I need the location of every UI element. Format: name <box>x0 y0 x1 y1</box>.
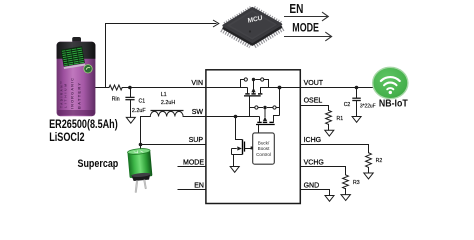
M1 body arrow <box>251 88 255 93</box>
svg-text:R3: R3 <box>353 180 360 186</box>
transistor M2 (buck-boost FET) <box>250 88 280 133</box>
svg-text:2.2uF: 2.2uF <box>132 108 146 114</box>
transistor M1 (high-side pass FET) <box>241 78 301 96</box>
svg-text:BATTERY: BATTERY <box>77 83 82 109</box>
resistor Rin <box>109 85 122 90</box>
svg-text:LiSOCl2: LiSOCl2 <box>49 132 85 144</box>
wire R3 to ground <box>345 189 347 195</box>
svg-text:R1: R1 <box>337 116 344 122</box>
svg-text:Rin: Rin <box>112 97 120 103</box>
svg-text:R2: R2 <box>376 158 383 164</box>
svg-text:3*22uF: 3*22uF <box>360 103 376 109</box>
transistor M3 (low-side NMOS) <box>232 117 253 167</box>
svg-text:ER26500(8.5Ah): ER26500(8.5Ah) <box>49 119 118 131</box>
svg-text:Buck/: Buck/ <box>258 141 270 146</box>
ground (C2) <box>352 117 361 123</box>
wire VCHG to R3 <box>300 167 345 175</box>
node M1 body <box>252 78 255 81</box>
arrowhead into MCU <box>213 20 219 27</box>
ground (R3) <box>341 195 350 201</box>
ground (M3 source) <box>230 167 239 173</box>
M3 body arrow <box>237 146 242 150</box>
wire C1 to ground <box>130 100 132 117</box>
M2 body arrow <box>263 117 267 122</box>
node VOUT/C2 junction <box>355 86 359 90</box>
wire battery to Rin <box>96 87 110 89</box>
wire VIN node to MCU <box>106 24 217 88</box>
wire VOUT to NB-IoT <box>300 87 373 89</box>
wire Rin to VIN pin <box>122 87 206 89</box>
svg-text:INORGANIC: INORGANIC <box>70 78 75 109</box>
svg-text:Supercap: Supercap <box>78 158 119 170</box>
ground (R1) <box>325 130 334 136</box>
ground (R2) <box>364 173 373 179</box>
wire M1 gate to SW line <box>249 96 251 117</box>
svg-text:Boost: Boost <box>258 146 270 151</box>
resistor R1 <box>326 110 332 124</box>
internal SW line <box>206 116 260 118</box>
svg-text:EN: EN <box>289 3 303 16</box>
ground (C1) <box>126 117 135 123</box>
svg-text:EN: EN <box>194 183 204 190</box>
wire C2 down <box>356 88 358 98</box>
node SUP junction <box>139 143 143 147</box>
wire SW to L1 <box>185 116 207 118</box>
supercap C3 <box>127 148 153 193</box>
capacitor C1 2.2uF <box>125 97 134 99</box>
svg-text:OSEL: OSEL <box>304 98 323 105</box>
svg-text:LITHIUM: LITHIUM <box>64 84 68 108</box>
svg-text:VCHG: VCHG <box>304 160 324 167</box>
battery BT1 ER26500 <box>57 37 96 116</box>
MCU U2 <box>222 7 283 45</box>
node M2 body <box>263 106 266 109</box>
node VIN junction <box>128 86 132 90</box>
ground (GND pin) <box>325 196 334 202</box>
svg-text:SW: SW <box>192 109 204 116</box>
svg-text:VOUT: VOUT <box>304 80 324 87</box>
svg-text:SUP: SUP <box>189 137 204 144</box>
svg-text:C1: C1 <box>139 98 146 104</box>
wire SUP node to supercap <box>140 145 142 151</box>
wire EN pin <box>178 189 206 191</box>
svg-text:GND: GND <box>304 183 320 190</box>
capacitor C2 3*22uF <box>352 98 361 100</box>
svg-text:L1: L1 <box>161 92 167 98</box>
internal VIN line <box>206 87 248 89</box>
node SW junction <box>234 115 238 119</box>
NB-IoT module icon <box>373 67 408 98</box>
svg-text:VIN: VIN <box>191 80 203 87</box>
wire R1 to ground <box>328 124 330 130</box>
resistor R3 <box>343 175 349 189</box>
wire OSEL to R1 <box>300 106 328 111</box>
buck/boost control block <box>253 133 275 164</box>
svg-text:ICHG: ICHG <box>304 137 322 144</box>
inductor L1 2.2uH <box>149 111 185 117</box>
wire ICHG to R2 <box>300 145 368 153</box>
EN arrow <box>284 12 328 21</box>
wire MODE pin <box>178 166 206 168</box>
IC U1 box <box>206 70 300 204</box>
wire L1 left to SUP node <box>141 117 149 145</box>
svg-text:2.2uH: 2.2uH <box>161 100 175 106</box>
svg-text:MODE: MODE <box>183 160 204 167</box>
node VOUT internal <box>278 86 282 90</box>
wire C2 to ground <box>356 101 358 116</box>
svg-text:C2: C2 <box>344 102 351 108</box>
svg-text:NB-IoT: NB-IoT <box>379 98 408 109</box>
wire R2 to ground <box>368 168 370 173</box>
MODE arrow <box>284 32 332 41</box>
wire GND pin to ground <box>300 190 329 196</box>
resistor R2 <box>366 153 372 168</box>
wire SUP <box>141 144 207 146</box>
svg-text:MODE: MODE <box>292 21 319 35</box>
svg-text:Control: Control <box>256 152 271 157</box>
wire C1 down <box>130 88 132 97</box>
